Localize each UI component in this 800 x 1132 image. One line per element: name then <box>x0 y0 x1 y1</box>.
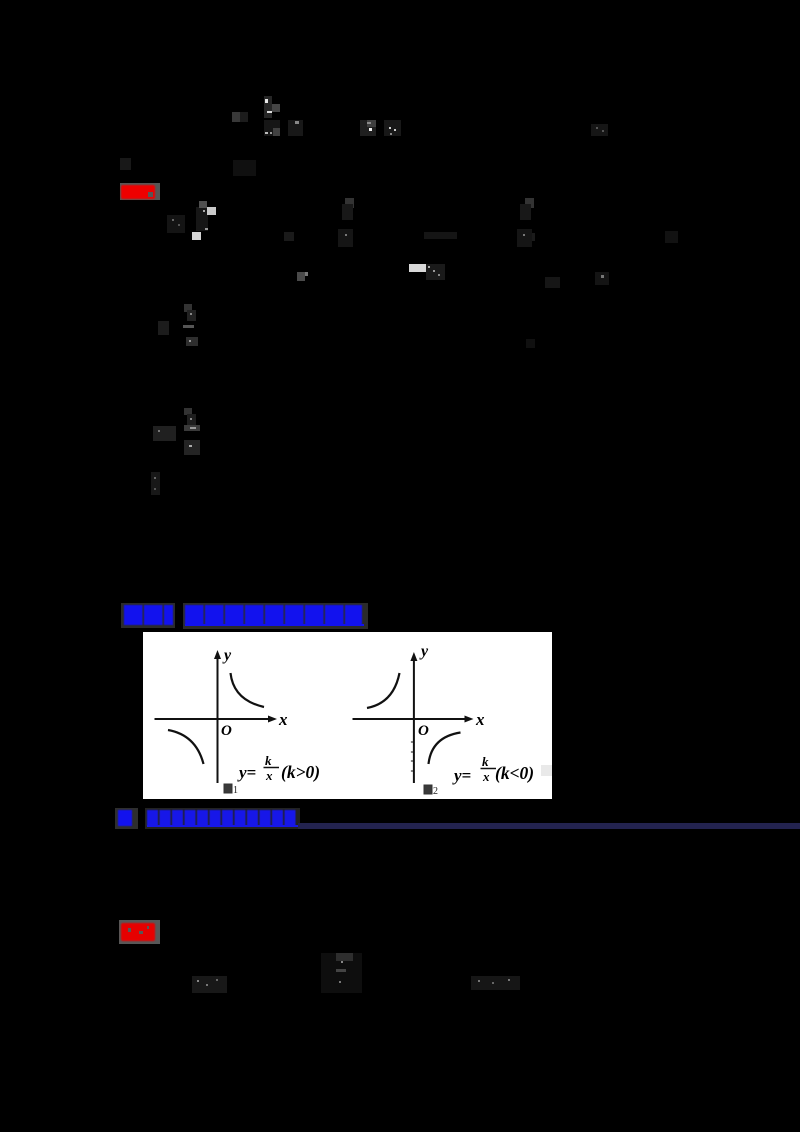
svg-text:(k>0): (k>0) <box>281 762 320 782</box>
svg-text:y=: y= <box>237 763 256 782</box>
svg-text:1: 1 <box>233 785 238 796</box>
svg-text:x: x <box>475 710 485 729</box>
svg-text:k: k <box>482 754 489 769</box>
svg-text:x: x <box>265 768 273 783</box>
svg-text:(k<0): (k<0) <box>495 763 534 783</box>
svg-text:y: y <box>419 643 429 660</box>
svg-text:O: O <box>221 723 232 739</box>
svg-text:2: 2 <box>433 786 438 797</box>
svg-text:k: k <box>265 753 272 768</box>
svg-text:y: y <box>222 647 232 664</box>
svg-text:y=: y= <box>452 766 471 785</box>
svg-text:x: x <box>278 710 288 729</box>
svg-text:O: O <box>418 723 429 739</box>
svg-text:x: x <box>482 769 490 784</box>
